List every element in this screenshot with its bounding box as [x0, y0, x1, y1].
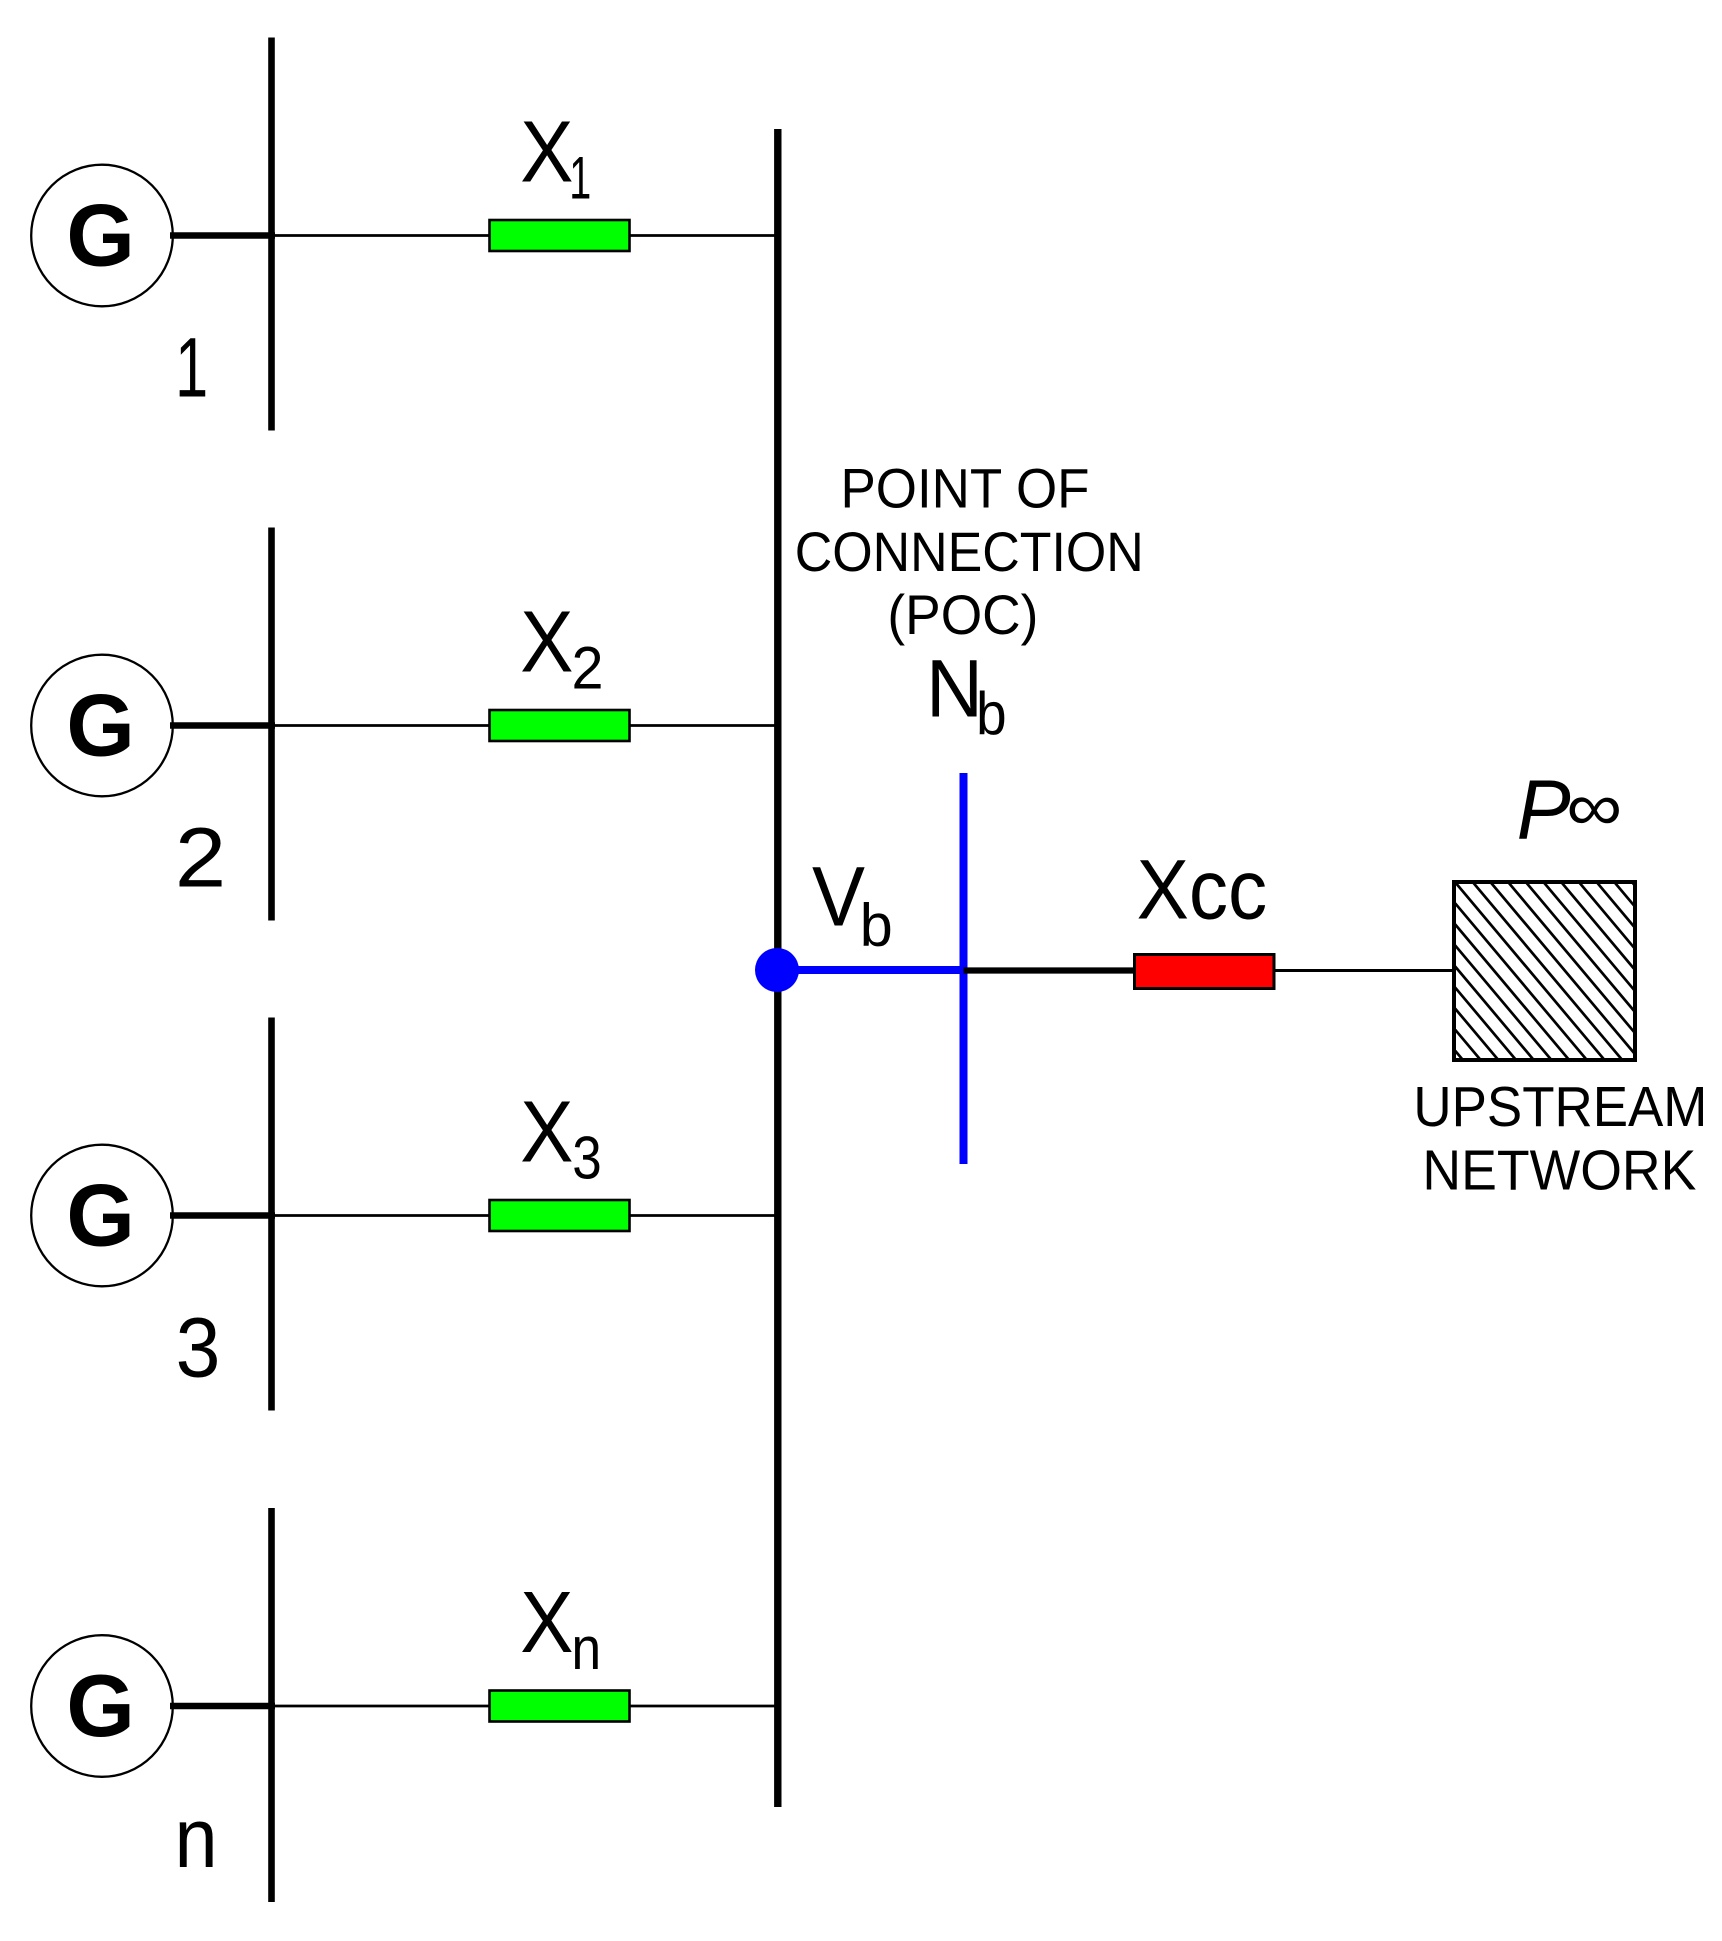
wire X1 to main bus — [630, 234, 777, 237]
wire bus2 to X2 — [272, 724, 491, 727]
svg-text:1: 1 — [175, 321, 208, 415]
svg-text:NETWORK: NETWORK — [1422, 1139, 1696, 1203]
wire Xn to main bus — [630, 1705, 777, 1708]
label X1 — [520, 104, 591, 212]
wire X2 to main bus — [630, 724, 777, 727]
generator G2 — [31, 655, 173, 797]
wire G3 to bus 3 — [170, 1212, 275, 1218]
wire X3 to main bus — [630, 1214, 777, 1217]
reactor Xn (green) — [490, 1691, 630, 1722]
wire bus1 to X1 — [272, 234, 491, 237]
reactor X1 (green) — [490, 220, 630, 251]
label Vb — [812, 850, 893, 959]
svg-text:3: 3 — [176, 1301, 221, 1395]
svg-text:X: X — [520, 104, 573, 201]
reactor Xcc (red) — [1135, 955, 1275, 989]
node Vb (blue junction dot) — [755, 948, 799, 992]
wire G1 to bus 1 — [170, 232, 275, 238]
svg-text:∞: ∞ — [1566, 769, 1622, 845]
svg-text:X: X — [520, 594, 573, 691]
svg-text:X: X — [520, 1084, 573, 1181]
reactor X2 (green) — [490, 710, 630, 741]
svg-text:N: N — [926, 644, 983, 735]
wire Vb to Nb bus (blue) — [777, 966, 964, 974]
svg-text:n: n — [175, 1791, 218, 1885]
svg-text:2: 2 — [175, 811, 226, 905]
svg-text:X: X — [520, 1574, 573, 1671]
svg-text:3: 3 — [572, 1125, 602, 1192]
wire Gn to bus n — [170, 1703, 275, 1709]
wire Xcc to upstream network — [1274, 969, 1455, 972]
reactor X3 (green) — [490, 1200, 630, 1231]
main bus (POC busbar) — [774, 129, 781, 1807]
svg-text:POINT OF: POINT OF — [841, 457, 1090, 520]
label UPSTREAM NETWORK — [1413, 1075, 1707, 1203]
label Nb — [926, 644, 1007, 748]
generator G1 — [31, 165, 173, 307]
svg-text:CONNECTION: CONNECTION — [795, 520, 1144, 583]
svg-text:G: G — [66, 676, 134, 775]
label POINT OF CONNECTION (POC) — [795, 457, 1144, 647]
POC bus Nb (blue busbar) — [960, 773, 968, 1164]
wire G2 to bus 2 — [170, 722, 275, 728]
wire bus3 to X3 — [272, 1214, 491, 1217]
label P-infinity — [1517, 762, 1623, 856]
svg-text:b: b — [976, 680, 1007, 747]
label X3 — [520, 1084, 602, 1192]
svg-text:(POC): (POC) — [887, 583, 1038, 646]
svg-text:G: G — [66, 1166, 134, 1265]
bus 2 — [268, 528, 275, 921]
label X2 — [520, 594, 603, 702]
wire Nb to Xcc — [964, 967, 1137, 973]
svg-text:2: 2 — [572, 635, 604, 702]
svg-text:Xcc: Xcc — [1137, 843, 1268, 937]
svg-text:V: V — [812, 850, 865, 944]
svg-text:n: n — [571, 1615, 601, 1682]
svg-text:UPSTREAM: UPSTREAM — [1413, 1075, 1707, 1139]
bus 1 — [268, 38, 275, 431]
label Xn — [520, 1574, 601, 1682]
svg-text:P: P — [1517, 762, 1571, 856]
svg-text:G: G — [66, 1656, 134, 1755]
generator Gn — [31, 1635, 173, 1777]
svg-text:b: b — [860, 892, 893, 959]
upstream network P-infinity (hatched box) — [1310, 878, 1722, 1064]
bus 3 — [268, 1018, 275, 1411]
generator G3 — [31, 1145, 173, 1287]
bus n — [268, 1508, 275, 1902]
wire busn to Xn — [272, 1705, 491, 1708]
svg-text:1: 1 — [569, 145, 591, 212]
svg-text:G: G — [66, 186, 134, 285]
